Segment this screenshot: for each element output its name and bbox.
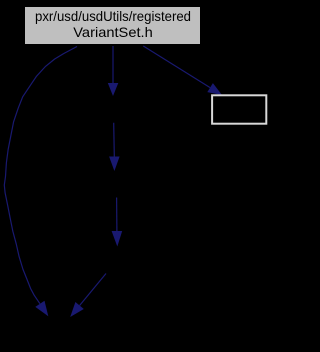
edge G: registeredVariantSet.h -> bordered node (diagonal right): [143, 46, 222, 95]
edge E: node2 -> node3 (vertical): [112, 198, 123, 247]
edge A: registeredVariantSet.h -> bottom-left node (long left curve): [4, 47, 77, 317]
node: bordered rectangle (light grey outline, empty): [212, 95, 266, 123]
svg-text:pxr/usd/usdUtils/registered: pxr/usd/usdUtils/registered: [35, 8, 191, 24]
svg-text:VariantSet.h: VariantSet.h: [73, 24, 153, 40]
edge B: registeredVariantSet.h -> node1 (vertical): [108, 46, 119, 96]
edge D: node1 -> node2 (vertical): [109, 123, 120, 171]
edge F: node3 -> bottom-left node (diagonal): [70, 274, 106, 318]
node: pxr/usd/usdUtils/registeredVariantSet.h (grey filled box): [25, 7, 201, 45]
